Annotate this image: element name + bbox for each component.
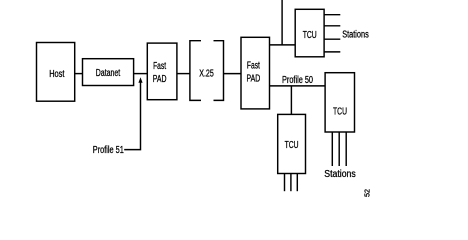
station line TCU2 port1 — [331, 132, 333, 166]
wire riser to top edge — [281, 0, 283, 45]
svg-text:Fast: Fast — [153, 61, 166, 72]
box Datanet — [83, 59, 134, 86]
box Host — [37, 43, 75, 102]
svg-text:Host: Host — [49, 69, 64, 80]
svg-text:52: 52 — [365, 189, 372, 197]
box TCU 2 — [325, 73, 354, 132]
station line TCU3 port1 — [284, 174, 286, 192]
station line TCU2 port3 — [345, 132, 347, 166]
box TCU 1 — [295, 9, 324, 57]
svg-text:X.25: X.25 — [199, 68, 214, 79]
svg-text:Stations: Stations — [342, 30, 369, 41]
box X.25 (bracket corners) — [190, 41, 224, 101]
wire X.25-FastPAD2 — [224, 73, 242, 75]
svg-text:Datanet: Datanet — [96, 68, 121, 79]
station line TCU1 port2 — [324, 25, 340, 27]
station line TCU1 port1 — [324, 14, 340, 16]
svg-text:Fast: Fast — [247, 60, 260, 71]
svg-text:Profile 50: Profile 50 — [282, 75, 313, 86]
svg-text:TCU: TCU — [303, 30, 317, 41]
wire Datanet-FastPAD1 — [134, 73, 148, 75]
box Fast PAD 1 — [147, 43, 177, 100]
svg-text:PAD: PAD — [153, 74, 167, 85]
station line TCU3 port2 — [290, 174, 292, 192]
wire FastPAD2-TCU1 — [270, 44, 296, 46]
svg-text:TCU: TCU — [285, 140, 299, 151]
svg-text:PAD: PAD — [247, 74, 261, 85]
station line TCU3 port3 — [296, 174, 298, 192]
svg-text:Stations: Stations — [324, 169, 356, 180]
station line TCU2 port2 — [338, 132, 340, 166]
wire Host-Datanet — [75, 73, 83, 75]
arrowhead Profile 51 — [138, 77, 142, 83]
wire drop to TCU3 — [290, 86, 292, 115]
svg-text:Profile 51: Profile 51 — [93, 145, 124, 156]
wire FastPAD1-X.25 — [177, 73, 190, 75]
wire FastPAD2-TCU2 — [270, 85, 326, 87]
box Fast PAD 2 — [241, 37, 270, 109]
station line TCU1 port4 — [324, 51, 340, 53]
box TCU 3 — [278, 114, 306, 173]
callout line Profile 51 — [124, 82, 140, 149]
station line TCU1 port3 — [324, 38, 340, 40]
svg-text:TCU: TCU — [333, 107, 347, 118]
